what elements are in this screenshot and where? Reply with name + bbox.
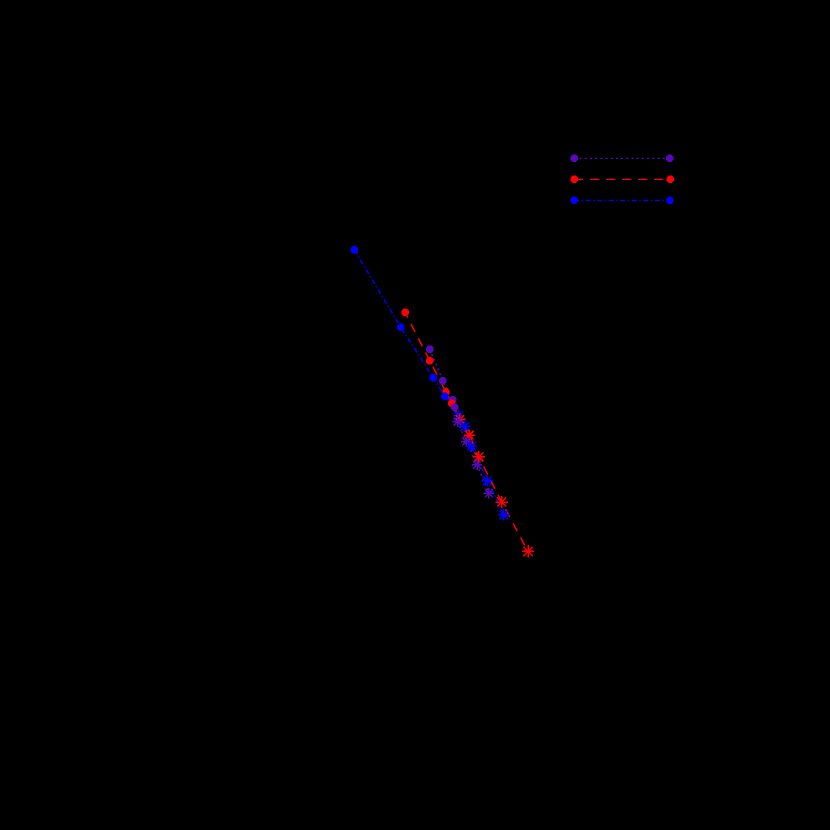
blue ast 4 asterisk marker bbox=[482, 475, 494, 487]
purple ast 3 asterisk marker bbox=[472, 460, 482, 470]
red ast 2 asterisk marker bbox=[464, 430, 475, 441]
purple ast 1 asterisk marker bbox=[452, 417, 462, 427]
purple ast 2 asterisk marker bbox=[461, 436, 471, 446]
red series dot markers bbox=[401, 309, 455, 407]
red ast 5 asterisk marker bbox=[522, 545, 534, 557]
blue ast 1 asterisk marker bbox=[453, 410, 465, 422]
legend entry: purple dotted series bbox=[571, 155, 674, 162]
blue series dash-dot line bbox=[354, 250, 503, 515]
purple series dot marker 4 bbox=[451, 404, 458, 411]
red ast 1 asterisk marker bbox=[454, 414, 465, 425]
blue series dot markers bbox=[351, 246, 449, 400]
blue ast 2 asterisk marker bbox=[459, 421, 471, 433]
legend entry: red dashed series bbox=[571, 176, 674, 183]
red ast 4 asterisk marker bbox=[496, 496, 508, 508]
red series dashed line bbox=[405, 312, 528, 551]
purple series dot markers 1-3 bbox=[426, 346, 456, 404]
red ast 3 asterisk marker bbox=[473, 451, 485, 463]
legend entry: blue dash-dot series bbox=[571, 197, 674, 204]
purple ast 4 asterisk marker bbox=[484, 488, 494, 498]
purple series dotted line bbox=[430, 349, 489, 493]
blue ast 5 asterisk marker bbox=[498, 509, 510, 521]
blue ast 3 asterisk marker bbox=[466, 440, 478, 452]
